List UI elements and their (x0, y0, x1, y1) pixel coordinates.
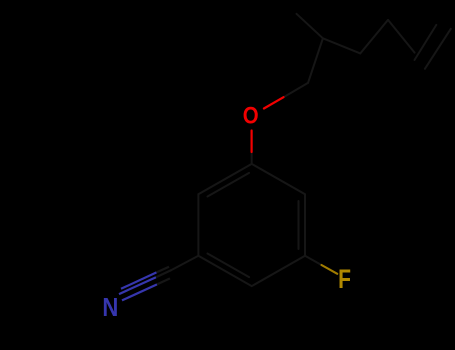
svg-text:N: N (102, 293, 118, 322)
svg-text:O: O (243, 102, 259, 129)
svg-text:F: F (338, 265, 351, 295)
